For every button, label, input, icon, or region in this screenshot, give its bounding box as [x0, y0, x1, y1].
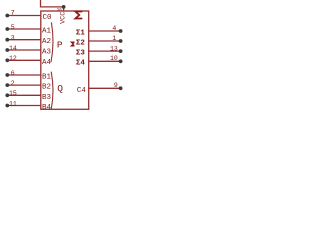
- svg-text:11: 11: [9, 100, 17, 107]
- svg-text:A2: A2: [42, 38, 51, 46]
- svg-text:13: 13: [110, 45, 118, 52]
- pin end dot 7: [5, 14, 9, 18]
- pin 13 S3 wire: [89, 50, 121, 52]
- svg-text:C4: C4: [77, 87, 87, 95]
- svg-text:2: 2: [11, 80, 15, 87]
- svg-text:Σ4: Σ4: [76, 60, 86, 68]
- svg-text:B3: B3: [42, 94, 52, 102]
- svg-text:9: 9: [114, 82, 118, 89]
- group bracket P (A1-A4): [51, 22, 53, 62]
- pin 2 B2 wire: [7, 84, 41, 86]
- pin end dot 5: [5, 27, 9, 31]
- pin end dot 13: [119, 49, 123, 53]
- svg-text:1: 1: [112, 35, 116, 42]
- pin end dot 11: [5, 104, 9, 108]
- pin end dot 9: [119, 86, 123, 90]
- svg-text:VCC: VCC: [59, 12, 67, 24]
- pin 7 C0 wire: [7, 15, 41, 17]
- junction dot VCC: [62, 5, 66, 9]
- pin end dot 2: [5, 83, 9, 87]
- svg-text:A3: A3: [42, 49, 52, 57]
- svg-text:3: 3: [11, 35, 15, 42]
- pin end dot 15: [5, 93, 9, 97]
- pin 3 A2 wire: [7, 39, 41, 41]
- svg-text:15: 15: [9, 90, 17, 97]
- svg-text:5: 5: [11, 24, 15, 31]
- svg-text:10: 10: [110, 55, 118, 62]
- svg-text:B2: B2: [42, 84, 51, 92]
- svg-text:C0: C0: [43, 14, 53, 22]
- pin 5 A1 wire: [7, 28, 41, 30]
- pin 4 S1 wire: [89, 30, 121, 32]
- pin end dot 4: [119, 29, 123, 33]
- pin end dot 3: [5, 38, 9, 42]
- svg-text:4: 4: [112, 25, 116, 32]
- pin 14 A3 wire: [7, 49, 41, 51]
- svg-text:Q: Q: [57, 83, 63, 94]
- svg-text:B1: B1: [42, 74, 52, 82]
- pin 12 A4 wire: [7, 59, 41, 61]
- pin end dot 6: [5, 73, 9, 77]
- svg-text:A4: A4: [42, 59, 52, 67]
- svg-text:7: 7: [11, 9, 15, 16]
- pin 1 S2 wire: [89, 40, 121, 42]
- pin end dot 1: [119, 39, 123, 43]
- svg-text:Σ1: Σ1: [76, 29, 86, 37]
- svg-text:Σ3: Σ3: [76, 49, 86, 57]
- pin end dot 12: [5, 58, 9, 62]
- pin 9 C4 wire: [89, 87, 121, 89]
- svg-text:P: P: [57, 40, 63, 51]
- svg-text:B4: B4: [42, 104, 52, 112]
- IC body U1 (74283 4-bit adder): [41, 11, 89, 109]
- pin 16 VCC stub: [63, 7, 65, 11]
- svg-text:A1: A1: [42, 28, 52, 36]
- group bracket Q (B1-B4): [51, 72, 53, 110]
- svg-text:14: 14: [9, 45, 17, 52]
- pin 6 B1 wire: [7, 74, 41, 76]
- pin 10 S4 wire: [89, 60, 121, 62]
- pin end dot 14: [5, 48, 9, 52]
- svg-text:12: 12: [9, 55, 17, 62]
- function label sigma small: [72, 42, 75, 46]
- pin 15 B3 wire: [7, 94, 41, 96]
- svg-text:Σ2: Σ2: [76, 39, 86, 47]
- pin end dot 10: [119, 59, 123, 63]
- function label sigma large: [75, 12, 82, 19]
- pin 11 B4 wire: [7, 105, 41, 107]
- wire VCC net: [41, 0, 64, 7]
- svg-text:6: 6: [11, 70, 15, 77]
